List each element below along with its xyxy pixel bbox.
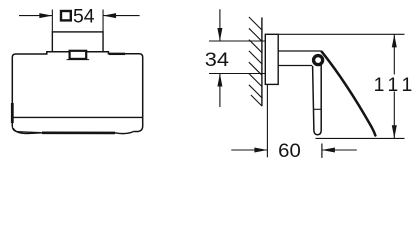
svg-text:60: 60 [278, 141, 301, 162]
dim 34: extension lines [209, 41, 266, 74]
dim 60: left extension line [266, 84, 268, 157]
dim 34: arrows [217, 28, 222, 87]
plate side view [265, 34, 278, 84]
top extension line [278, 33, 404, 35]
thick shading: left edge [11, 103, 14, 123]
thick shading: bottom edge [42, 132, 115, 135]
bar top line [278, 50, 321, 52]
arm [322, 52, 376, 136]
cover bottom-left corner [12, 126, 41, 133]
cover outline [12, 52, 142, 132]
svg-text:1: 1 [374, 75, 385, 96]
square symbol [61, 11, 71, 20]
wall plate front view [52, 32, 103, 52]
thick shading: top edge right of plate [109, 53, 125, 55]
dim 60: right extension tick [321, 144, 323, 158]
dim 34: shafts [219, 9, 221, 107]
pivot circle [314, 56, 323, 65]
dim 54: leaders [19, 15, 140, 17]
dim 111: shafts [393, 34, 395, 138]
seam line [12, 116, 142, 118]
dim 60: arrows [254, 148, 335, 153]
svg-text:34: 34 [205, 50, 230, 71]
wall line [261, 17, 263, 106]
roll pin [313, 64, 322, 135]
cover bottom lid curve [13, 128, 133, 133]
pin crossbar [314, 108, 321, 110]
bar bottom line [278, 65, 312, 67]
svg-text:54: 54 [73, 6, 95, 27]
dim 54: arrows [39, 13, 116, 18]
wall hatching [249, 17, 262, 106]
dim 60: shafts [231, 149, 356, 151]
svg-text:1: 1 [388, 75, 399, 96]
svg-text:1: 1 [402, 75, 413, 96]
bottom extension line [316, 137, 405, 139]
dim 54: extension lines [52, 10, 103, 32]
top tab [67, 59, 90, 61]
dim 111: arrows [392, 34, 397, 138]
